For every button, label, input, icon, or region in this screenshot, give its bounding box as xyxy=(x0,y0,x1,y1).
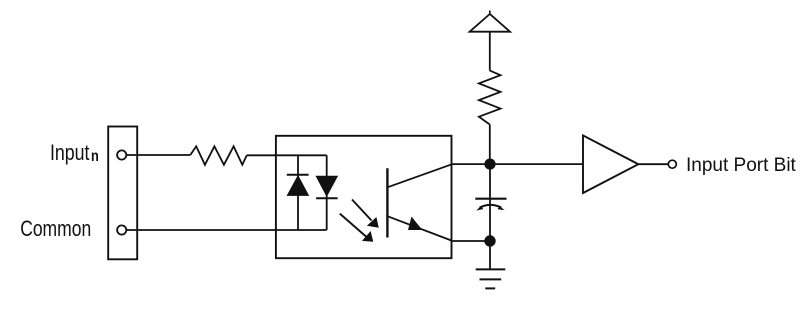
node A junction dot xyxy=(484,159,495,170)
wire node A to capacitor and node B xyxy=(489,164,491,241)
svg-text:Input: Input xyxy=(50,140,90,165)
terminal pin 1 (Input) xyxy=(117,150,126,159)
wire buffer to output pin xyxy=(638,163,669,165)
LED D1 (up-pointing) xyxy=(287,175,309,196)
wire common (pin2 to LED rail) xyxy=(126,229,326,231)
resistor R2 (pull-up) xyxy=(479,71,501,125)
phototransistor Q1 emitter xyxy=(387,216,451,240)
ground xyxy=(476,269,506,288)
svg-text:Input Port Bit: Input Port Bit xyxy=(686,155,797,176)
LED D2 branch wire xyxy=(326,155,328,230)
svg-text:Common: Common xyxy=(20,216,91,241)
wire collector to node A xyxy=(452,163,490,165)
wire resistor R2 to node A xyxy=(489,125,491,165)
optocoupler U1 box xyxy=(276,136,452,258)
phototransistor Q1 base bar xyxy=(386,168,388,237)
output pin circle xyxy=(668,160,676,168)
wire power to resistor R2 xyxy=(489,32,491,71)
terminal block J1 xyxy=(108,127,137,260)
LED D2 (down-pointing) xyxy=(316,176,338,198)
LED D1 branch wire xyxy=(297,155,299,230)
phototransistor Q1 emitter arrow xyxy=(408,217,422,230)
wire input (pin1 to resistor) xyxy=(126,154,190,156)
wire node B to ground xyxy=(489,241,491,269)
label Input_n xyxy=(50,140,99,165)
capacitor C1 curved plate xyxy=(476,205,504,211)
light arrow 2 xyxy=(340,214,373,242)
phototransistor Q1 collector xyxy=(387,164,451,187)
light arrow 1 xyxy=(352,200,378,228)
wire node A to buffer xyxy=(490,163,583,165)
wire emitter to node B xyxy=(452,240,490,242)
node B junction dot xyxy=(484,235,495,246)
power symbol xyxy=(470,11,510,32)
capacitor C1 top plate xyxy=(475,198,506,200)
terminal pin 2 (Common) xyxy=(117,225,126,234)
buffer U2 xyxy=(583,135,638,193)
svg-text:n: n xyxy=(91,148,99,165)
wire resistor to LED anode rail xyxy=(247,154,327,156)
resistor R1 xyxy=(190,146,247,165)
